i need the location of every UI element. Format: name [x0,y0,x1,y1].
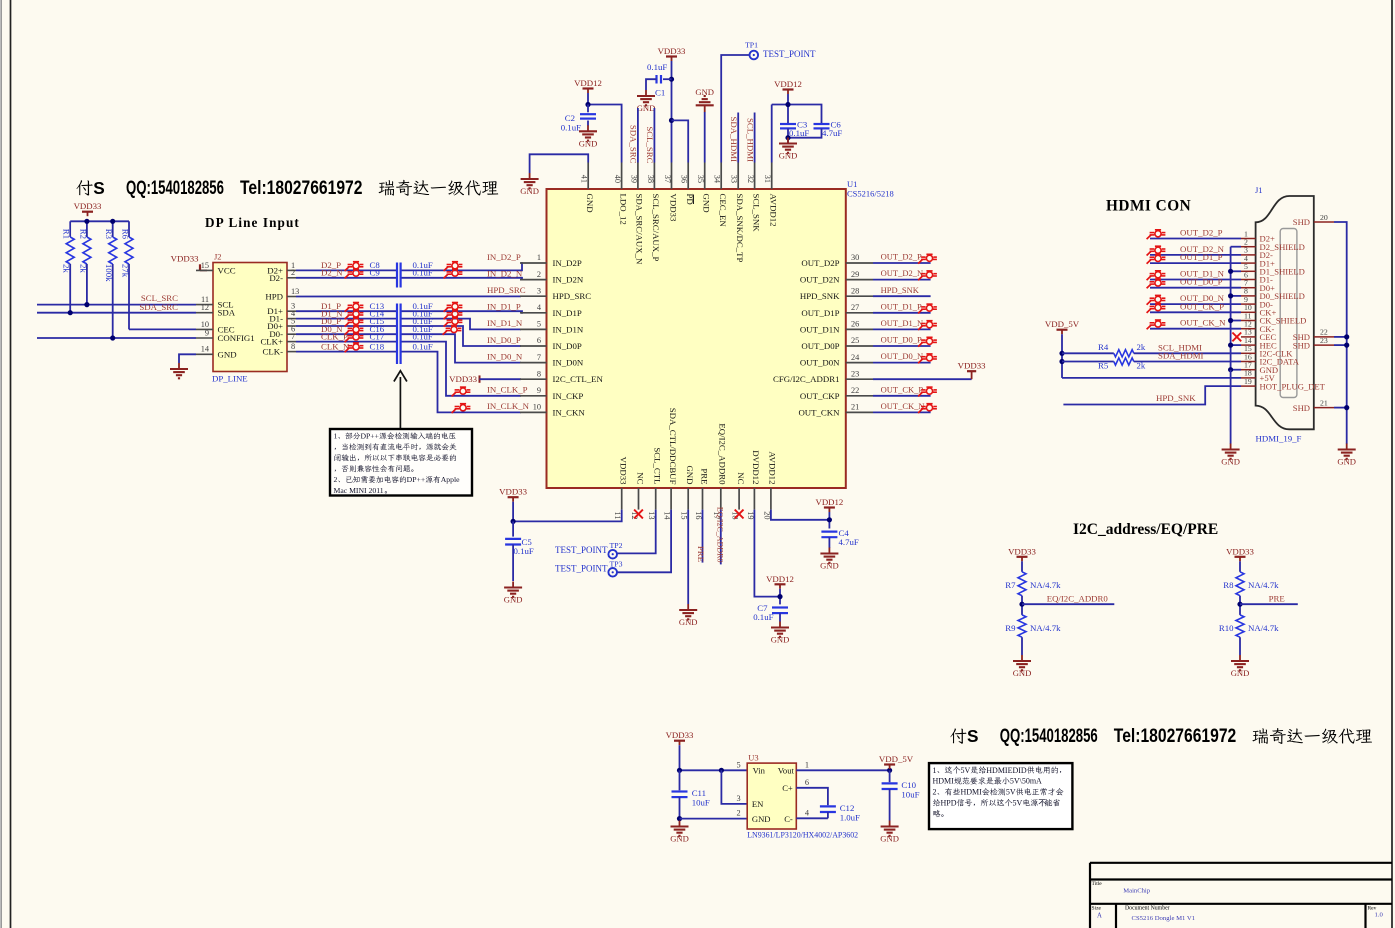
svg-text:Title: Title [1092,881,1103,887]
svg-text:OUT_D1_P: OUT_D1_P [1180,252,1223,262]
svg-text:Apple: Apple [441,475,460,484]
wire SCL_SRC [37,293,196,304]
svg-text:9: 9 [537,386,541,395]
capacitor C1 [647,62,672,98]
junction C1 [669,77,674,82]
wire D1_N via C14 [296,308,521,329]
svg-text:R4: R4 [1098,342,1109,352]
ground pin41 [520,173,539,196]
wire pin17 EQ/I2C_ADDR0 [716,507,725,564]
resistor R4 2k [1062,342,1241,357]
svg-text:R5: R5 [1098,360,1109,370]
wire OUT_D2_N [873,268,937,280]
svg-text:SCL_CTL: SCL_CTL [653,447,663,484]
svg-text:0.1uF: 0.1uF [413,341,433,351]
wire OUT_D2_P [873,252,937,264]
svg-text:OUT_D1N: OUT_D1N [800,324,840,334]
resistor R1 2k [62,229,75,274]
svg-text:C2: C2 [565,113,575,123]
svg-text:VDD_5V: VDD_5V [1045,319,1080,329]
header contact text bottom [950,725,1372,747]
svg-text:8: 8 [291,342,295,351]
svg-text:VDD33: VDD33 [1008,546,1036,556]
test point TP1 [745,41,816,60]
svg-text:25: 25 [851,336,859,345]
svg-text:IN_CLK_P: IN_CLK_P [487,385,528,395]
svg-text:Tel:18027661972: Tel:18027661972 [1114,725,1236,747]
wire VDD12 net C3 [772,94,822,163]
svg-text:GND: GND [1337,457,1356,467]
capacitor C2 [561,105,596,133]
wire pin32 SCL_HDMI [746,113,756,163]
svg-text:21: 21 [851,403,859,412]
svg-text:GND: GND [679,617,698,627]
svg-text:1: 1 [805,760,809,769]
title block [1090,863,1392,928]
junction C11 GND row [677,816,682,821]
wire shield bus [1228,247,1241,444]
svg-text:4.7uF: 4.7uF [822,128,842,138]
svg-text:GND: GND [520,186,539,196]
svg-text:C-: C- [784,814,793,824]
junction SDA_SRC R1 [68,310,73,315]
svg-text:HPD_SNK: HPD_SNK [800,291,840,301]
svg-text:GND: GND [685,465,695,484]
svg-text:VDD33: VDD33 [1226,546,1254,556]
power port VDD12 (C2) [574,78,602,93]
junction C10 [887,768,892,773]
wire OUT_D2_N to J1 pin 3 [1147,244,1241,256]
svg-text:CLK_P: CLK_P [321,331,348,341]
svg-text:OUT_D2_P: OUT_D2_P [881,252,922,262]
svg-text:0.1uF: 0.1uF [789,128,809,138]
svg-text:AVDD12: AVDD12 [768,451,778,484]
svg-text:R8: R8 [1223,580,1234,590]
wire CLK_N via C18 [296,341,521,412]
svg-text:CS5216 Dongle M1 V1: CS5216 Dongle M1 V1 [1132,915,1196,922]
svg-text:Vout: Vout [778,766,795,776]
wire pin38 SCL_SRC [645,108,655,164]
power port VDD33 (I2C_CTL_EN) [449,374,521,384]
svg-text:CEC_EN: CEC_EN [718,194,728,228]
svg-text:R9: R9 [1005,623,1016,633]
svg-text:OUT_CK_N: OUT_CK_N [1180,318,1226,328]
svg-text:40: 40 [613,175,622,183]
svg-text:5V: 5V [1006,788,1016,797]
svg-text:R10: R10 [1219,623,1234,633]
svg-text:GND: GND [504,595,523,605]
capacitors C13-C18 plates [397,304,401,365]
junction pullup bus R2 [84,219,89,224]
IC U1 left pins [520,253,603,417]
capacitor C4 [821,528,858,548]
svg-text:EQ/I2C_ADDR0: EQ/I2C_ADDR0 [716,507,725,563]
svg-text:DVDD12: DVDD12 [751,450,761,484]
wire R1 to SDA_SRC [69,264,71,313]
wire R6 to CEC [128,264,130,329]
svg-text:1: 1 [334,432,338,441]
no-connect X CEC pin13 [1232,333,1241,342]
wire OUT_D1_N to J1 pin 6 [1147,269,1241,281]
svg-text:VDD33: VDD33 [449,374,477,384]
svg-text:NC: NC [635,472,645,484]
svg-text:39: 39 [629,175,638,183]
svg-text:12: 12 [201,303,209,312]
svg-text:VDD12: VDD12 [574,78,602,88]
svg-text:HPD_SNK: HPD_SNK [881,285,920,295]
svg-text:2: 2 [737,809,741,818]
wire CFG/I2C_ADDR1 to VDD33 [873,378,972,380]
svg-text:31: 31 [763,175,772,183]
svg-text:NA/4.7k: NA/4.7k [1030,580,1061,590]
junction CONFIG R3 [110,335,115,340]
power port VDD_5V (U3 out) [879,754,914,769]
svg-text:HPD_SRC: HPD_SRC [553,291,592,301]
svg-text:2k: 2k [1137,360,1146,370]
svg-text:GND: GND [695,87,714,97]
svg-text:S: S [93,178,105,198]
ground J2 [170,363,188,378]
wire C12 to C- [796,817,828,819]
svg-text:19: 19 [746,511,755,519]
svg-text:Size: Size [1092,906,1102,912]
power port VDD33 (C5) [499,487,527,502]
svg-text:10: 10 [533,403,541,412]
svg-text:0.1uF: 0.1uF [561,123,581,133]
svg-text:3: 3 [737,794,741,803]
junction C4 [827,517,832,522]
svg-text:D2-: D2- [269,273,283,283]
wire pin15 GND [687,510,689,604]
svg-text:HDMIEDID: HDMIEDID [986,766,1027,775]
wire pin34 to TP1 [721,55,749,163]
capacitor C12 [820,803,860,823]
ground pin15 [679,604,698,627]
svg-text:OUT_D0_N: OUT_D0_N [881,351,924,361]
svg-text:GND: GND [670,834,689,844]
wire CEC [129,328,196,330]
wire PD to pin36 [672,120,689,162]
svg-text:IN_CLK_N: IN_CLK_N [487,401,530,411]
svg-text:GND: GND [820,561,839,571]
svg-text:Mac MINI 2011: Mac MINI 2011 [334,486,384,495]
svg-text:30: 30 [851,253,859,262]
IC U1 top pins [580,163,779,266]
junction PD branch [669,118,674,123]
svg-text:1.0uF: 1.0uF [840,813,860,823]
wire pin16 PRE [696,510,706,563]
svg-text:OUT_CKP: OUT_CKP [800,391,840,401]
svg-text:SDA_HDMI: SDA_HDMI [1158,351,1204,361]
svg-text:VDD_5V: VDD_5V [879,754,914,764]
svg-text:A: A [1097,913,1102,920]
svg-text:OUT_D1_P: OUT_D1_P [881,301,922,311]
svg-text:PRE: PRE [1269,594,1285,604]
resistor R3 100k [104,229,117,282]
ground C4 [820,548,839,571]
svg-text:23: 23 [851,369,859,378]
svg-text:IN_D0_P: IN_D0_P [487,335,521,345]
svg-text:OUT_CK_P: OUT_CK_P [881,384,924,394]
ground C10 [880,821,899,844]
svg-text:LN9361/LP3120/HX4002/AP3602: LN9361/LP3120/HX4002/AP3602 [747,831,858,840]
svg-text:HOT_PLUG_DET: HOT_PLUG_DET [1260,381,1326,391]
svg-text:SCL_SRC: SCL_SRC [645,126,655,163]
svg-text:SCL_HDMI: SCL_HDMI [746,118,756,162]
test point TP2 [555,541,623,558]
svg-text:3: 3 [537,286,541,295]
wire VDD33 to Vin [680,745,748,770]
svg-text:5V\50mA: 5V\50mA [1010,777,1042,786]
note box 5V power [929,763,1072,829]
resistor R6 27k [120,229,133,278]
svg-text:0.1uF: 0.1uF [514,546,534,556]
svg-text:DP_LINE: DP_LINE [212,374,248,384]
wire VDD12 C7 [779,589,781,605]
IC U1 CS5216 box [547,179,894,488]
svg-text:NA/4.7k: NA/4.7k [1248,580,1279,590]
wire pullup top bus [70,221,129,237]
wire OUT_D0_N to J1 pin 9 [1147,293,1241,305]
junction Vin [677,768,682,773]
svg-text:22: 22 [851,386,859,395]
ground shield bus [1221,444,1240,467]
svg-text:C+: C+ [782,783,793,793]
svg-text:NC: NC [736,472,746,484]
power port VDD_5V [1045,319,1080,334]
svg-text:IN_D2_P: IN_D2_P [487,252,521,262]
svg-text:13: 13 [647,511,656,519]
power port VDD12 (C7) [766,574,794,589]
junction VDD12 C3 [785,102,790,107]
wire D1_P via C13 [296,301,522,313]
svg-text:C18: C18 [370,341,385,351]
svg-text:VDD33: VDD33 [619,457,629,485]
svg-text:2: 2 [291,268,295,277]
wire pin33 SDA_HDMI [729,113,739,163]
svg-text:VDD12: VDD12 [774,79,802,89]
section title I2C_address/EQ/PRE [1073,521,1218,538]
junction SCL_SRC R2 [84,302,89,307]
svg-text:IN_CKN: IN_CKN [553,407,586,417]
svg-text:J2: J2 [214,252,222,262]
svg-text:20: 20 [1320,213,1328,222]
svg-text:34: 34 [713,175,722,184]
junction R4 [1059,351,1064,356]
svg-text:IN_D1_N: IN_D1_N [487,318,523,328]
svg-text:QQ:1540182856: QQ:1540182856 [1000,726,1098,747]
svg-text:Vin: Vin [753,766,766,776]
svg-text:NA/4.7k: NA/4.7k [1248,623,1279,633]
svg-text:R6: R6 [120,229,130,240]
svg-text:R7: R7 [1005,580,1016,590]
svg-text:33: 33 [730,175,739,183]
junction EN branch [719,768,724,773]
section title HDMI CON [1106,198,1191,215]
svg-text:CS5216/5218: CS5216/5218 [847,189,894,199]
svg-text:U1: U1 [847,179,857,189]
wire D0_N via C16 [296,324,521,363]
svg-text:TEST_POINT: TEST_POINT [555,545,608,555]
svg-text:GND: GND [880,834,899,844]
svg-text:SDA: SDA [218,308,236,318]
svg-text:EQ/I2C_ADDR0: EQ/I2C_ADDR0 [718,423,728,485]
connector J2 left pins [196,261,255,360]
svg-text:GND: GND [702,194,712,213]
capacitors C8 C9 plates [397,263,401,288]
wire HPD_SNK to J1 [1063,386,1241,404]
svg-text:37: 37 [663,175,672,183]
IC U3 regulator box [747,753,858,840]
svg-text:IN_D0P: IN_D0P [553,341,582,351]
svg-text:19: 19 [1244,377,1252,386]
power port VDD12 (C4) [815,497,843,512]
svg-text:I2C_address/EQ/PRE: I2C_address/EQ/PRE [1073,521,1218,538]
svg-text:GND: GND [637,103,656,113]
wire SHD bus [1334,222,1349,444]
svg-text:J1: J1 [1255,185,1263,195]
svg-text:SCL_SNK: SCL_SNK [751,194,761,233]
svg-text:PRE: PRE [696,546,706,562]
svg-text:SDA_SRC/AUX_N: SDA_SRC/AUX_N [635,194,645,266]
svg-text:32: 32 [746,175,755,183]
svg-text:OUT_CKN: OUT_CKN [798,407,840,417]
svg-text:EQ/I2C_ADDR0: EQ/I2C_ADDR0 [1047,594,1109,604]
svg-text:13: 13 [291,287,299,296]
svg-text:DP++: DP++ [360,432,379,441]
svg-text:SDA_HDMI: SDA_HDMI [729,117,739,163]
svg-text:SDA_SRC: SDA_SRC [629,125,639,164]
svg-text:5V: 5V [961,766,971,775]
junction VDD12 C2 [585,102,590,107]
wire VDD12 to LDO_12 [588,93,622,163]
wire OUT_D1_N [873,318,937,330]
ground C7 [771,622,790,645]
svg-text:EN: EN [752,799,764,809]
wire C3 C6 join [788,128,822,143]
note arrow [394,371,407,429]
wire VDD_5V bus [1062,334,1241,378]
svg-text:GND: GND [779,151,798,161]
svg-text:HPD_SRC: HPD_SRC [487,285,526,295]
svg-text:0.1uF: 0.1uF [413,331,433,341]
wire pin19 DVDD12 [754,510,780,597]
svg-text:9: 9 [205,328,209,337]
svg-text:GND: GND [218,349,237,359]
junction C7 [777,594,782,599]
ground C5 [504,582,523,605]
wire OUT_CK_N to J1 pin 12 [1147,318,1241,330]
svg-text:CONFIG1: CONFIG1 [218,333,255,343]
ground C2 [579,125,598,148]
power port VDD33 (pin23) [958,361,986,380]
svg-text:Tel:18027661972: Tel:18027661972 [240,177,362,199]
svg-text:IN_D2P: IN_D2P [553,258,582,268]
svg-text:7: 7 [291,332,295,341]
svg-text:MainChip: MainChip [1123,888,1150,895]
capacitor C6 [814,119,843,138]
svg-text:10uF: 10uF [692,798,710,808]
svg-text:VDD12: VDD12 [766,574,794,584]
svg-text:5: 5 [737,760,741,769]
svg-text:41: 41 [580,175,589,183]
svg-text:2: 2 [933,788,937,797]
svg-text:OUT_D2P: OUT_D2P [801,258,839,268]
wire OUT_D1_P to J1 pin 4 [1147,252,1241,264]
power port VDD33 (U3) [666,730,694,745]
svg-text:C17: C17 [370,331,385,341]
svg-text:PRE: PRE [699,468,709,484]
svg-text:VDD33: VDD33 [658,46,686,56]
connector J1 SHD pins [1293,213,1334,413]
svg-text:HPD: HPD [941,799,957,808]
svg-text:IN_D0_N: IN_D0_N [487,351,523,361]
svg-text:35: 35 [696,175,705,183]
svg-text:VDD33: VDD33 [666,730,694,740]
svg-text:C9: C9 [370,268,381,278]
svg-text:VDD33: VDD33 [668,194,678,222]
svg-text:NA/4.7k: NA/4.7k [1030,623,1061,633]
IC U1 right pins [773,253,873,417]
svg-text:OUT_D1_N: OUT_D1_N [881,318,924,328]
wire pin13 to TP2 [617,510,656,554]
svg-text:15: 15 [201,261,209,270]
wire pin14 to TP3 [617,510,671,573]
resistor divider R7 R9 EQ/I2C_ADDR0 [1005,546,1114,678]
svg-text:23: 23 [1320,336,1328,345]
wire pin20 AVDD12 [771,510,830,520]
svg-text:SDA_SRC: SDA_SRC [139,302,178,312]
svg-text:14: 14 [663,511,672,520]
svg-text:SHD: SHD [1293,340,1310,350]
ground C3 C6 [779,138,798,161]
svg-text:VDD33: VDD33 [958,361,986,371]
svg-text:GND: GND [1231,668,1250,678]
wire D2_P via C8 [296,260,522,271]
svg-text:36: 36 [680,175,689,183]
ground SHD bus [1337,444,1356,467]
wire D2_N via C9 [296,268,522,280]
connector J2 DP_LINE box [212,252,287,384]
svg-text:TP1: TP1 [745,41,758,50]
resistor R2 2k [78,229,91,274]
svg-text:IN_D2_N: IN_D2_N [487,268,523,278]
svg-text:R2: R2 [78,229,88,239]
power port VDD12 (C3 C6) [774,79,802,94]
wire GND pin U3 [680,818,748,820]
svg-text:OUT_D2N: OUT_D2N [800,275,840,285]
svg-text:OUT_D2_N: OUT_D2_N [881,268,924,278]
svg-text:28: 28 [851,286,859,295]
svg-text:SHD: SHD [1293,217,1310,227]
IC U1 bottom pins [613,408,778,521]
svg-text:CFG/I2C_ADDR1: CFG/I2C_ADDR1 [773,374,839,384]
svg-text:4.7uF: 4.7uF [839,537,859,547]
capacitor C11 [672,770,710,818]
svg-text:0.1uF: 0.1uF [647,62,667,72]
wire R3 to CONFIG [112,264,114,338]
svg-text:OUT_D0_P: OUT_D0_P [881,335,922,345]
wire OUT_D2_P to J1 pin 1 [1147,228,1241,240]
svg-text:OUT_D2_P: OUT_D2_P [1180,228,1223,238]
svg-text:2: 2 [334,475,338,484]
svg-text:GND: GND [585,194,595,213]
svg-text:SHD: SHD [1293,403,1310,413]
svg-text:TP2: TP2 [610,541,623,550]
header contact text top [76,177,498,199]
svg-text:HPD_SNK: HPD_SNK [1156,393,1196,403]
wire OUT_D0_P [873,335,937,347]
